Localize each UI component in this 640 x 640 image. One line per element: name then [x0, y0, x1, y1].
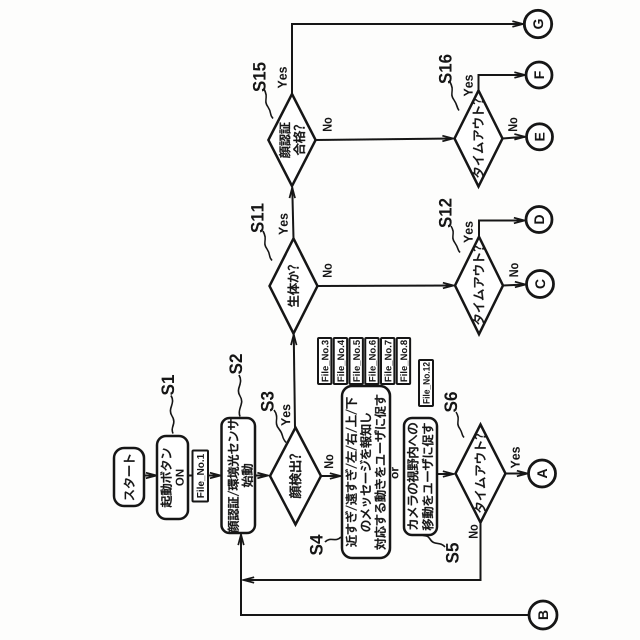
text File_No.4 — [337, 340, 345, 382]
file label box File_No.7 — [381, 338, 394, 384]
leader S16 — [450, 82, 459, 111]
file label box File_No.4 — [334, 338, 347, 384]
text タイムアウト？ S16 — [473, 99, 484, 178]
wire S16 Yes to circle F — [479, 72, 526, 90]
text File_No.5 — [353, 340, 361, 381]
wire S16 No to circle E — [503, 134, 526, 140]
text 顔認証 — [279, 122, 291, 158]
text のメッセージを報知し — [360, 413, 372, 531]
decision S12 タイムアウト? — [455, 237, 503, 334]
text カメラの視野内への — [407, 423, 418, 529]
wire S11 Yes to S15 diamond — [290, 188, 296, 239]
wire S15 No to S16 diamond — [316, 136, 453, 142]
text File_No.8 — [400, 340, 408, 381]
file label box File_No.8 — [397, 338, 410, 384]
text 移動をユーザに促す — [422, 423, 434, 530]
decision S16 タイムアウト? — [455, 91, 503, 187]
text 生体か？ — [287, 265, 299, 307]
text 近すぎ/遠すぎ/左/右/上/下 — [345, 397, 357, 546]
connector circle F — [526, 62, 552, 88]
file label box File_No.5 — [350, 338, 363, 384]
label S16 — [439, 55, 452, 84]
process box S5 カメラの視野内への移動をユーザに促す — [404, 418, 437, 535]
text タイムアウト？ S6 — [475, 434, 486, 513]
wire S15 Yes to circle G — [292, 21, 523, 94]
decision S3 顔検出? — [270, 428, 321, 525]
text 顔検出？ — [289, 454, 301, 498]
file label box File_No.12 — [419, 360, 433, 406]
text タイムアウト？ S12 — [473, 246, 484, 325]
connector circle C — [527, 271, 554, 298]
wire S3 No to S4 box — [321, 473, 341, 479]
text File_No.3 — [321, 340, 329, 381]
connector circle B — [529, 601, 557, 629]
file label box File_No.6 — [365, 338, 378, 384]
wire S11 No to S12 diamond — [318, 283, 454, 289]
text 合格？ — [293, 125, 305, 155]
label S12 — [439, 199, 452, 228]
label No at S12 — [509, 263, 518, 276]
leader S3 — [274, 410, 286, 443]
leader S15 — [264, 89, 273, 119]
terminal box start スタート — [114, 448, 144, 506]
label No at S11 — [323, 264, 332, 277]
label S15 — [253, 62, 266, 91]
leader S2 — [238, 375, 241, 417]
label S5 — [446, 543, 459, 563]
wire S2 box to S3 diamond — [255, 473, 268, 479]
leader S5 — [421, 535, 445, 548]
process box S1 起動ボタンON — [157, 436, 188, 519]
text File_No.7 — [384, 340, 392, 381]
label Yes at S16 — [464, 75, 473, 96]
label No at S6 — [469, 525, 478, 538]
wire S1 box to S2 box (through File_No.1) — [188, 473, 221, 479]
label Yes at S12 — [464, 222, 473, 243]
label S1 — [161, 375, 174, 395]
connector circle G — [524, 10, 551, 37]
wire circle B feedback to S2 box — [238, 535, 528, 616]
label S4 — [310, 535, 323, 555]
text ON — [176, 470, 184, 486]
label Yes at S3 — [281, 405, 290, 426]
wire S12 No to circle C — [503, 282, 526, 288]
leader S11 — [263, 231, 272, 261]
label S11 — [251, 203, 264, 232]
wire S12 Yes to circle D — [479, 218, 525, 237]
wire S6 No to feedback line — [244, 523, 481, 583]
decision S6 タイムアウト? — [456, 425, 506, 523]
process box S2 顔認証/環境光センサ始動 — [222, 418, 256, 533]
leader S12 — [451, 226, 460, 253]
leader S1 — [170, 396, 173, 434]
leader S4 — [325, 537, 341, 542]
wire S5 box to S6 diamond — [437, 471, 454, 477]
label S3 — [261, 392, 274, 412]
file label box File_No.1 — [193, 451, 209, 502]
file label box File_No.3 — [318, 338, 331, 384]
wire S3 Yes to S11 diamond — [291, 335, 297, 428]
label S6 — [444, 392, 457, 412]
text 対応する動きをユーザに促す — [374, 395, 386, 550]
decision S15 顔認証合格? — [268, 94, 315, 186]
text or — [392, 467, 399, 478]
label No at S15 — [323, 118, 332, 131]
text 起動ボタン — [160, 448, 172, 507]
text File_No.12 — [423, 362, 431, 403]
connector circle E — [527, 124, 553, 150]
label Yes at S11 — [279, 214, 288, 235]
connector circle D — [526, 207, 552, 233]
process box S4 message — [342, 386, 390, 558]
label No at S16 — [508, 118, 517, 131]
text File_No.6 — [369, 340, 377, 381]
label Yes at S15 — [278, 67, 287, 88]
label No at S3 — [324, 455, 333, 468]
text 始動 — [242, 464, 253, 487]
wire start to S1 box — [144, 473, 157, 479]
text スタート — [124, 455, 135, 501]
text File_No.1 — [197, 454, 205, 498]
wire S6 Yes to circle A — [506, 471, 528, 477]
decision S11 生体か? — [270, 239, 318, 334]
leader S6 — [456, 412, 464, 438]
text 顔認証/環境光センサ — [228, 419, 240, 532]
label Yes at S6 — [511, 447, 520, 468]
connector circle A — [529, 460, 556, 487]
label S2 — [229, 354, 242, 374]
